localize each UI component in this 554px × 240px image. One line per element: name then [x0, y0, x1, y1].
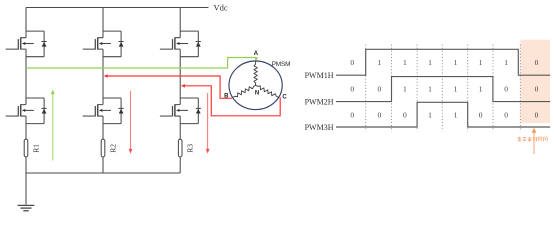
- current arrow leg1 (green, up): [52, 93, 54, 160]
- MOSFET Q5 (bottom, leg 2): [83, 98, 124, 124]
- svg-text:0: 0: [479, 110, 483, 119]
- svg-text:PMSM: PMSM: [272, 61, 291, 68]
- svg-text:1: 1: [479, 85, 483, 94]
- wire phase C (red) motor C to leg3: [184, 86, 280, 116]
- current arrow leg2 (red, down): [130, 91, 132, 149]
- current arrow leg3 (red, down): [207, 93, 209, 149]
- annotation arrow (current sampling interval): [533, 132, 535, 154]
- svg-text:PWM1H: PWM1H: [305, 71, 334, 80]
- MOSFET Q4 (bottom, leg 1): [6, 98, 47, 124]
- svg-text:1: 1: [378, 58, 382, 67]
- wire R3 to bottom rail: [179, 157, 181, 173]
- svg-text:1: 1: [428, 85, 432, 94]
- sampling-interval shaded column: [520, 40, 550, 124]
- arrowhead at leg3 (left): [181, 84, 185, 88]
- wire R1 to bottom rail: [25, 157, 27, 173]
- svg-text:0: 0: [504, 110, 508, 119]
- waveform PWM2H: [336, 77, 550, 102]
- svg-text:C: C: [282, 94, 287, 100]
- wire leg1 Q4 source to R1: [25, 124, 27, 140]
- arrowhead at leg2 (left): [104, 74, 108, 78]
- svg-text:PWM2H: PWM2H: [305, 97, 334, 106]
- waveform PWM1H: [336, 49, 550, 75]
- wire phase A (green) leg1 to motor terminal A: [26, 58, 256, 69]
- svg-text:0: 0: [504, 85, 508, 94]
- annotation text (CJK, drawn as glyph blocks): [518, 137, 548, 142]
- wire leg3 rail to Q3 drain: [179, 8, 181, 32]
- svg-text:1: 1: [454, 85, 458, 94]
- svg-text:0: 0: [403, 110, 407, 119]
- logic value digits row PWM1H: [350, 58, 538, 67]
- svg-text:PWM3H: PWM3H: [305, 123, 334, 132]
- wire leg2 Q5 source to R2: [102, 124, 104, 140]
- wire R2 to bottom rail: [102, 157, 104, 173]
- svg-text:1: 1: [479, 58, 483, 67]
- svg-text:R1: R1: [32, 144, 41, 153]
- svg-text:B: B: [224, 93, 229, 99]
- resistor R2: [101, 139, 105, 157]
- wire leg1 rail to Q1 drain: [25, 8, 27, 32]
- arrowhead into terminal A (down): [254, 57, 258, 61]
- svg-text:0: 0: [378, 110, 382, 119]
- svg-text:0: 0: [535, 110, 539, 119]
- svg-text:N: N: [255, 91, 259, 97]
- dotted grid lines: [366, 45, 521, 132]
- svg-text:R2: R2: [109, 144, 118, 153]
- logic value digits row PWM3H: [350, 110, 538, 119]
- svg-text:0: 0: [378, 85, 382, 94]
- MOSFET Q6 (bottom, leg 3): [160, 98, 201, 124]
- svg-text:0: 0: [535, 85, 539, 94]
- svg-text:0: 0: [350, 58, 354, 67]
- resistor R3: [178, 139, 182, 157]
- svg-text:1: 1: [403, 58, 407, 67]
- svg-text:0: 0: [350, 85, 354, 94]
- motor body circle: [229, 61, 282, 110]
- logic value digits row PWM2H: [350, 85, 538, 94]
- svg-text:Vdc: Vdc: [214, 3, 228, 13]
- winding A: [254, 61, 257, 85]
- MOSFET Q1 (top, leg 1): [6, 31, 47, 57]
- bottom rail: [26, 172, 180, 174]
- svg-text:1: 1: [454, 110, 458, 119]
- resistor R1: [24, 139, 28, 157]
- waveform PWM3H: [336, 102, 550, 127]
- wire leg1 midpoint: [25, 57, 27, 98]
- svg-text:1: 1: [454, 58, 458, 67]
- svg-text:0: 0: [350, 110, 354, 119]
- wire leg3 Q6 source to R3: [179, 124, 181, 140]
- svg-text:R3: R3: [186, 144, 195, 153]
- svg-text:1: 1: [403, 85, 407, 94]
- Vdc rail: [26, 7, 209, 9]
- svg-text:1: 1: [504, 58, 508, 67]
- wire phase B (red) motor B to leg2: [107, 76, 232, 98]
- winding B: [233, 85, 256, 97]
- MOSFET Q3 (top, leg 3): [160, 31, 201, 57]
- ground: [18, 173, 35, 211]
- wire leg2 midpoint: [102, 57, 104, 98]
- svg-text:A: A: [254, 51, 259, 57]
- winding C: [256, 85, 279, 97]
- MOSFET Q2 (top, leg 2): [83, 31, 124, 57]
- wire leg3 midpoint: [179, 57, 181, 98]
- svg-text:1: 1: [428, 58, 432, 67]
- svg-text:0: 0: [535, 58, 539, 67]
- wire leg2 rail to Q2 drain: [102, 8, 104, 32]
- svg-text:1: 1: [428, 110, 432, 119]
